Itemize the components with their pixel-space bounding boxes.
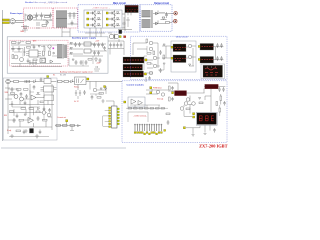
wire row2 <box>5 88 44 99</box>
input drops to aux <box>62 28 70 37</box>
fuse F1 <box>12 42 17 44</box>
wire display bottom <box>186 126 210 134</box>
wire plug to rectifier <box>15 20 23 22</box>
connector header pins <box>135 125 161 131</box>
T2 core <box>62 44 65 59</box>
coupling transformer coil A <box>109 34 114 39</box>
sensor block SB1 <box>119 30 122 34</box>
pads right of connector <box>164 130 166 132</box>
transistor Q23 <box>93 88 97 92</box>
plug P1 <box>10 19 15 24</box>
choke L3 <box>25 80 30 83</box>
U10 left pads <box>109 107 111 128</box>
resistor R23 <box>99 93 104 95</box>
P1 white dots <box>207 66 216 68</box>
cap C31 <box>23 130 26 135</box>
capacitor C2 <box>40 13 43 20</box>
right cap column C21 <box>216 56 223 61</box>
transistor Q21 <box>20 97 24 101</box>
regulator U5 <box>84 42 91 46</box>
aux scatter resistor R31 <box>33 59 37 61</box>
maroon module MM1 <box>205 84 219 88</box>
resistor R6 <box>147 53 151 55</box>
aux scatter resistor R30 <box>27 47 31 49</box>
aux bottom wire <box>12 64 62 67</box>
capacitor C3 <box>46 20 49 25</box>
bridge rail wires <box>95 10 115 28</box>
wire row1 <box>10 81 56 83</box>
thermostat ST1 <box>21 25 29 29</box>
aux scatter cap C37 <box>27 59 30 64</box>
cap C28 <box>43 107 46 112</box>
TR1 pad <box>145 59 147 61</box>
diode D3 <box>96 24 101 26</box>
resistor R7 <box>147 63 151 65</box>
diode D19 <box>71 79 73 83</box>
relay K2 box <box>75 77 87 85</box>
bl cap C42 <box>48 108 51 113</box>
aux transformer T2 primary hatch <box>57 45 62 59</box>
diode D18 <box>38 108 40 110</box>
optocoupler U3 <box>40 59 46 63</box>
aux scatter diode D23 <box>38 46 40 48</box>
resistor R20 <box>16 130 21 132</box>
EMC filter dashed box <box>53 8 78 28</box>
vertical comp column R9 <box>169 86 171 90</box>
opamp A3 <box>31 95 36 100</box>
wire conn top <box>128 112 148 122</box>
mid row wire <box>57 81 122 83</box>
svg-text:Auxiliary power supply: Auxiliary power supply <box>72 36 97 39</box>
cap C32 <box>39 130 42 135</box>
transistor Q20 <box>14 95 18 99</box>
svg-text:Main circuit: Main circuit <box>113 2 126 5</box>
cap C33 <box>83 90 86 95</box>
transistor Q19 <box>192 102 196 106</box>
transistor Q8 <box>20 58 24 62</box>
current transformer CT1 <box>118 28 132 31</box>
mid2 resistor R37 <box>97 97 101 99</box>
common-mode choke L1 winding hatch <box>56 11 67 27</box>
output inductor L2 <box>159 13 165 14</box>
drive cap C18 <box>159 50 162 55</box>
wire thermostat drop <box>22 29 28 33</box>
wire bus top <box>33 15 52 20</box>
aux bus verticals <box>85 28 105 37</box>
cap C35 <box>213 128 216 133</box>
regulator U6 <box>84 49 91 53</box>
svg-text:AP1: AP1 <box>33 40 36 43</box>
diode D10 <box>18 41 24 45</box>
drive wires2 <box>144 46 164 70</box>
mid2 ground G3 <box>101 99 104 103</box>
cap C27 <box>25 94 28 99</box>
push-pull Q13 <box>149 71 153 75</box>
IGBT Q4 <box>109 11 115 16</box>
drive cap C45 <box>146 76 151 82</box>
rectifier-filter dashed box <box>24 8 54 28</box>
right column parts C24 <box>218 87 225 92</box>
PWM IC U2 <box>29 50 38 57</box>
capacitor C4 <box>69 12 72 19</box>
resistor R3 <box>26 42 31 44</box>
svg-text:- - - - - - - -: - - - - - - - - <box>44 2 57 4</box>
control IC box U8 <box>44 86 54 92</box>
N2 red marks <box>202 59 214 61</box>
drive cap C19 <box>159 68 162 73</box>
IGBT Q3 <box>90 23 96 27</box>
wire display left <box>184 105 192 117</box>
rectifier diode D8 <box>156 21 159 26</box>
cap bank C12 <box>93 51 100 56</box>
TR3 pad <box>144 73 146 75</box>
diode D20 <box>100 88 102 90</box>
drive transformer TR3 block <box>123 71 144 77</box>
resistor R1 <box>45 16 50 18</box>
magenta node dot <box>53 48 55 50</box>
bridge rectifier BR1 <box>27 15 32 20</box>
wire drop mid <box>78 82 96 100</box>
svg-text:Power input: Power input <box>10 12 23 15</box>
diode D17 <box>34 79 36 83</box>
opamp A1 <box>131 99 136 104</box>
wire inside rect box <box>25 14 36 22</box>
svg-text:Rectifier: Rectifier <box>25 1 33 4</box>
gate pad G4 <box>106 12 108 14</box>
resnet row RN1 <box>128 108 165 110</box>
relay K1 box <box>44 79 51 84</box>
core lines <box>151 10 152 28</box>
wire T1 primary <box>122 12 131 28</box>
feedback module frame <box>201 64 225 79</box>
svg-text:Auxiliary switching power supp: Auxiliary switching power supply circuit <box>60 71 93 74</box>
rectifier diode D7 <box>156 11 159 16</box>
capacitor C8 <box>12 46 15 52</box>
varistor RV1 <box>36 22 40 28</box>
plug P2 <box>6 79 10 83</box>
gate pad G3 <box>87 24 89 26</box>
pad MM2 <box>172 92 174 94</box>
transistor Q16 <box>156 90 159 93</box>
aux transformer T2 secondary hatch <box>65 45 67 59</box>
resistor R25 <box>63 125 68 127</box>
svg-text:Output circuit: Output circuit <box>154 2 169 5</box>
aux inner dashed red box <box>10 40 68 66</box>
cap row mid C16 <box>116 43 119 48</box>
pad U7 <box>124 101 126 103</box>
cap row lower <box>75 60 88 65</box>
M1 red marks <box>175 48 187 50</box>
drive res R38 <box>146 39 148 43</box>
drive wires <box>133 43 160 73</box>
resistor R16 <box>21 108 26 110</box>
driver block M2 <box>173 55 186 63</box>
diode D6 <box>115 24 120 26</box>
drive res R39 <box>153 51 155 55</box>
mid2 wires <box>90 94 102 96</box>
N2 pad <box>198 59 200 61</box>
push-pull Q11 <box>153 56 157 60</box>
main circuit dashed box <box>78 5 140 32</box>
svg-text:ZX7-200 IGBT: ZX7-200 IGBT <box>199 143 227 148</box>
U2 pin lines <box>26 52 41 56</box>
bridge diagonals <box>28 15 32 20</box>
diode D21 <box>105 88 107 90</box>
bl resistor R34 <box>40 101 44 103</box>
aux sec diode D13 <box>70 53 72 55</box>
aux right cap C38 <box>103 46 106 51</box>
zener ZD3 <box>79 90 81 96</box>
pad PWM2 <box>150 92 152 94</box>
resistor R21 <box>58 80 63 82</box>
capacitor C9 <box>18 46 21 52</box>
gate pad G6 <box>106 24 108 26</box>
IGBT Q1 <box>90 11 96 16</box>
resistor R17 <box>29 108 34 110</box>
control modules dashed box <box>122 81 227 143</box>
IGBT bridge box <box>84 10 122 28</box>
transistor Q7 <box>14 55 18 59</box>
pad lower <box>183 127 185 129</box>
gate pad G1 <box>87 12 89 14</box>
resistor R4 <box>43 51 45 56</box>
push-pull Q12 <box>153 64 157 68</box>
cap bank C10 <box>74 42 81 47</box>
wire bottom link <box>9 136 49 138</box>
svg-text:Vz 12: Vz 12 <box>74 101 79 103</box>
wire right col <box>219 105 221 116</box>
gate pad G2 <box>87 18 89 20</box>
U10 right pads <box>117 108 119 125</box>
drive circuit dashed box <box>131 36 228 79</box>
resistor R2 <box>166 22 170 24</box>
aux right diode D25 <box>72 59 74 61</box>
coil core bars <box>113 34 116 39</box>
wire mid2 <box>97 86 106 94</box>
LED display frame <box>196 112 217 125</box>
red component <box>124 36 126 38</box>
resistor R11 <box>199 102 203 104</box>
N1 red marks <box>202 46 214 48</box>
right col cap C47 <box>223 101 226 106</box>
svg-text:Current set: Current set <box>57 116 66 119</box>
bl cap C39 <box>33 85 36 90</box>
MM1 drop wire <box>205 89 211 112</box>
bl diode D26 <box>36 93 40 95</box>
auxiliary power supply box <box>7 37 108 73</box>
diode D5 <box>115 18 120 20</box>
bl wires extra <box>8 89 52 120</box>
pad PWM1 <box>150 87 152 89</box>
pad cluster2 <box>66 120 68 122</box>
M2 pad <box>171 57 173 59</box>
aux right wires <box>69 50 107 66</box>
diode D2 <box>96 18 101 20</box>
push-pull Q10 <box>149 47 153 51</box>
transistor Q18 <box>186 98 190 102</box>
relay coil <box>77 79 84 84</box>
resistor R5 <box>49 51 51 56</box>
cap bank C11 <box>93 43 104 48</box>
ground sym row5 <box>10 134 39 138</box>
bl cap C40 <box>20 92 23 97</box>
AC line L <box>2 19 9 21</box>
aux scatter wires <box>11 45 57 63</box>
svg-text:PWM drive: PWM drive <box>153 88 162 90</box>
control wires upper <box>146 83 205 102</box>
svg-text:Drive circuit: Drive circuit <box>176 35 188 38</box>
terminal + center <box>175 13 176 14</box>
svg-text:Vref adj: Vref adj <box>157 98 164 100</box>
zener row <box>29 60 37 65</box>
resistor R19 <box>43 119 48 121</box>
opamp A2 <box>138 101 143 105</box>
resistor R13 <box>14 81 19 83</box>
snubber network <box>123 17 131 28</box>
comparator box U7 <box>128 97 145 107</box>
feedback block P1 <box>203 65 223 77</box>
gate block N1 <box>200 44 214 51</box>
svg-text:R adj: R adj <box>7 130 12 132</box>
zener ZD1 <box>23 47 25 56</box>
aux scatter transistor Q26 <box>48 45 51 48</box>
transistor Q24 <box>184 102 188 106</box>
wire output bus <box>153 14 172 24</box>
vertical bus left <box>7 84 9 134</box>
TR1 red winding marks <box>125 59 145 61</box>
P1 red scribble <box>205 68 218 75</box>
TR2 red winding marks <box>125 66 142 68</box>
capacitor C6 <box>71 21 74 26</box>
cap C29 <box>13 118 16 123</box>
zener ZD2 <box>75 90 77 96</box>
plug pins <box>12 20 14 22</box>
pad mid2 <box>104 86 106 88</box>
diode D22 <box>78 125 80 127</box>
connector pin tops <box>134 124 162 126</box>
drive diode D14 <box>163 44 165 46</box>
LED display DS1 <box>197 113 216 124</box>
module diode D15 <box>189 64 191 66</box>
ground sym display <box>192 134 207 137</box>
resistor R40 <box>42 25 47 27</box>
bl cap C41 <box>24 101 27 106</box>
plug P2 pins <box>7 81 9 83</box>
wire row4 <box>9 109 47 116</box>
wire to right group <box>162 46 171 58</box>
mid cap C34 <box>167 120 170 125</box>
bl cap C43 <box>16 114 19 119</box>
bl resistor R35 <box>10 111 14 113</box>
IGBT Q2 <box>90 17 96 22</box>
mid res R26 <box>166 113 170 115</box>
wire cluster2 <box>55 122 81 131</box>
aux scatter cap C36 <box>33 45 36 50</box>
U8 pins <box>41 88 57 92</box>
U10 top wire <box>106 101 114 106</box>
terminal - center <box>175 21 176 22</box>
cap row mid C14 <box>109 43 112 48</box>
svg-text:S1: S1 <box>53 75 55 77</box>
M1 pad <box>171 46 173 48</box>
pot RP1 <box>70 125 75 127</box>
bl resistor R33 <box>11 93 15 95</box>
cap C13 <box>99 58 102 63</box>
diode D1 <box>96 12 101 14</box>
cap row mid C15 <box>113 43 116 48</box>
output terminal + <box>174 12 177 15</box>
connector pads <box>134 132 162 135</box>
cap C30 <box>37 116 40 121</box>
coupling transformer coil B <box>114 34 119 39</box>
drive transformer TR1 block <box>123 57 144 63</box>
module wires <box>186 46 196 66</box>
vertical comp column C23 <box>171 97 174 101</box>
push-pull Q9 <box>149 41 153 45</box>
resistor R15 <box>24 89 29 91</box>
wire row3 <box>9 100 54 105</box>
vertical comp column C22 <box>171 86 174 90</box>
N1 pad <box>198 46 200 48</box>
gate block N2 <box>200 57 214 64</box>
module transistor Q14 <box>188 44 191 47</box>
diode D16 <box>199 98 201 100</box>
AC line N <box>2 22 9 24</box>
capacitor C1 <box>35 13 38 20</box>
bl ground G2 <box>24 129 27 133</box>
wire mid bus <box>108 33 124 49</box>
M2 red marks <box>175 59 187 61</box>
driver block M1 <box>173 44 186 52</box>
IGBT Q5 <box>109 17 115 22</box>
output terminal - <box>174 20 177 23</box>
black comp BK1 <box>30 129 34 134</box>
sheet bottom edge <box>1 147 126 149</box>
green pad <box>47 76 49 78</box>
transformer T1 secondary winding lower <box>142 20 151 28</box>
resistor R28 <box>219 108 221 112</box>
U10 pad wires <box>103 111 109 127</box>
resistor R14 <box>17 89 22 91</box>
transistor Q22 <box>47 113 51 117</box>
U3 inner diode <box>42 60 44 62</box>
bl zener ZD5 <box>11 101 13 107</box>
right col res R41 <box>216 102 218 106</box>
vertical comp column R10 <box>169 97 171 101</box>
wire row5 <box>8 121 52 127</box>
MCU IC U10 body <box>112 106 118 128</box>
TR3 red winding marks <box>125 73 145 75</box>
module transistor Q15 <box>188 55 191 58</box>
resistor R27 <box>186 108 190 110</box>
svg-text:Control modules: Control modules <box>127 83 145 86</box>
feedback board box <box>3 78 57 140</box>
vertical bus mid <box>29 84 31 120</box>
transformer T1 secondary winding upper <box>142 11 151 18</box>
drive diode D28 <box>163 63 165 65</box>
freewheel diode D9 <box>161 17 167 20</box>
relay contact K3 <box>43 20 53 23</box>
node pad yellow <box>119 36 121 38</box>
gate pad G5 <box>106 18 108 20</box>
TL431 U4 <box>50 60 53 63</box>
wire aux outputs <box>69 44 106 56</box>
bl resistor R36 <box>36 111 40 113</box>
vertical bus right <box>51 84 53 130</box>
aux right zener ZD4 <box>94 66 100 71</box>
resnet wire <box>126 105 168 108</box>
wire to terminals <box>172 13 174 21</box>
